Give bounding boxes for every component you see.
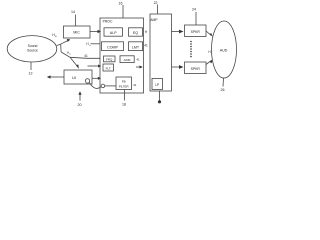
- wire MIC to PROC: [90, 31, 99, 33]
- block LP: [152, 79, 163, 90]
- svg-text:41: 41: [84, 54, 88, 58]
- block FB FILTER: [116, 77, 132, 90]
- block ALP: [104, 28, 123, 36]
- svg-text:26: 26: [221, 88, 225, 92]
- svg-text:ADM: ADM: [124, 58, 131, 62]
- leader 20 up arrow: [79, 94, 81, 101]
- wire SPKR bottom to AUD: [206, 60, 212, 64]
- wire source to junction: [57, 44, 61, 45]
- svg-text:FRQ: FRQ: [106, 58, 113, 62]
- audience ellipse AUD: [212, 21, 237, 78]
- svg-text:41: 41: [144, 44, 148, 48]
- processor PROC: [100, 18, 144, 93]
- svg-text:41: 41: [133, 83, 137, 87]
- label Hb at junction: [67, 51, 71, 56]
- svg-text:COMP: COMP: [107, 45, 118, 49]
- block FLT: [103, 64, 114, 71]
- svg-text:ALP: ALP: [110, 31, 117, 35]
- svg-text:20: 20: [78, 103, 82, 107]
- svg-text:14: 14: [71, 10, 75, 14]
- wire SPKR top to AUD: [206, 31, 212, 36]
- wire junction to PROC FRQ: [70, 57, 100, 58]
- svg-text:Sound: Sound: [28, 44, 38, 48]
- svg-text:LP: LP: [155, 83, 159, 87]
- sound source ellipse 12: [7, 36, 57, 62]
- amplifier AMP: [150, 14, 172, 91]
- mic MIC: [64, 26, 91, 38]
- svg-text:UI: UI: [72, 75, 76, 80]
- svg-text:SPKR: SPKR: [191, 30, 201, 34]
- label 41c: [133, 83, 137, 87]
- leader 26: [222, 78, 225, 87]
- leader 18: [124, 90, 126, 101]
- wire junction to UI: [61, 52, 77, 67]
- wire second entry: [88, 65, 100, 67]
- svg-text:SPKR: SPKR: [191, 67, 201, 71]
- label Hs: [208, 50, 213, 55]
- wire AMP to SPKR top: [172, 31, 183, 33]
- svg-text:MIC: MIC: [73, 31, 80, 35]
- svg-text:H: H: [145, 30, 148, 34]
- block EQ: [129, 28, 143, 36]
- label H right edge: [145, 30, 148, 34]
- wire AMP to SPKR bottom: [172, 66, 183, 68]
- svg-text:AUD: AUD: [220, 49, 228, 53]
- label Sound Source: [27, 44, 38, 53]
- dotted line: [190, 41, 192, 58]
- label 41a: [84, 54, 88, 58]
- block LMT: [129, 42, 143, 51]
- svg-text:16: 16: [119, 2, 123, 6]
- svg-text:22: 22: [154, 1, 158, 5]
- svg-text:EQ: EQ: [133, 31, 138, 35]
- svg-text:41: 41: [136, 58, 140, 62]
- wire knob curve to PROC circle: [89, 83, 101, 89]
- label Ha: [52, 33, 57, 38]
- label Ha left edge: [86, 42, 91, 47]
- knob circle: [85, 79, 89, 83]
- wire Ha into MIC: [61, 41, 69, 45]
- label 41d right edge: [144, 44, 148, 48]
- wire UI to PROC: [92, 77, 99, 79]
- wire arrowhead right edge: [136, 66, 141, 68]
- svg-text:18: 18: [122, 103, 126, 107]
- leader 22: [157, 5, 159, 15]
- leader 12: [30, 62, 32, 70]
- svg-text:a: a: [89, 45, 91, 47]
- node circle in PROC: [101, 84, 105, 88]
- speaker SPKR bottom: [185, 62, 207, 74]
- svg-text:PROC: PROC: [103, 20, 113, 24]
- svg-text:12: 12: [29, 72, 33, 76]
- svg-text:FB: FB: [122, 80, 126, 84]
- label 41b: [136, 58, 140, 62]
- leader 14: [75, 15, 77, 27]
- svg-text:a: a: [55, 35, 57, 38]
- leader 24: [195, 12, 197, 25]
- wire circle to FILTER: [105, 85, 116, 87]
- svg-text:Source: Source: [27, 49, 38, 53]
- block FRQ: [104, 56, 116, 62]
- svg-text:b: b: [69, 53, 71, 55]
- block ADM: [120, 56, 134, 63]
- svg-text:AMP: AMP: [150, 18, 158, 22]
- leader dot below AMP: [159, 91, 161, 101]
- wire junction vertical: [60, 44, 62, 52]
- svg-text:FILTER: FILTER: [119, 84, 129, 88]
- UI box: [64, 70, 92, 84]
- svg-text:FLT: FLT: [106, 66, 111, 70]
- svg-text:LMT: LMT: [132, 45, 140, 49]
- block COMP: [102, 42, 124, 51]
- svg-text:24: 24: [192, 8, 196, 12]
- left stub wire: [49, 76, 64, 78]
- speaker SPKR top: [185, 25, 207, 37]
- leader 16: [122, 5, 124, 18]
